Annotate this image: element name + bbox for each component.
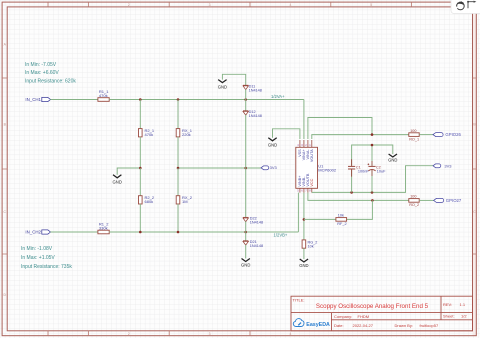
wire R2_2 bottom <box>139 204 141 232</box>
wire RX_1 bottom <box>177 137 179 168</box>
wire RX_2 bottom <box>177 204 179 232</box>
svg-text:3V3: 3V3 <box>444 163 452 168</box>
ground GND mid-left <box>113 175 121 178</box>
svg-text:4: 4 <box>289 3 291 7</box>
UI overlay top-right <box>451 0 480 14</box>
wire RX_2 top <box>177 168 179 196</box>
svg-text:MCP6002: MCP6002 <box>318 168 337 173</box>
svg-text:100: 100 <box>410 195 416 199</box>
resistor RX_2 <box>176 195 193 204</box>
op-amp U1 MCP6002 <box>296 140 337 193</box>
svg-text:5: 5 <box>370 3 372 7</box>
wire diode chain top to GND <box>222 74 245 85</box>
svg-text:3: 3 <box>209 3 211 7</box>
CH1 info text <box>25 62 76 84</box>
svg-text:3: 3 <box>209 332 211 336</box>
title block <box>291 296 473 331</box>
svg-text:680k: 680k <box>145 199 154 204</box>
svg-text:Input Resistance: 620k: Input Resistance: 620k <box>25 78 76 84</box>
svg-text:1/2VA+: 1/2VA+ <box>271 94 285 99</box>
wire VINA- feedback <box>308 118 372 140</box>
svg-text:2: 2 <box>128 332 130 336</box>
svg-text:FHDM: FHDM <box>358 314 370 319</box>
svg-text:1N4148: 1N4148 <box>250 221 263 225</box>
node B junctions <box>139 231 247 234</box>
corner arrows icon <box>468 2 474 9</box>
port IN_CH2 <box>25 230 50 235</box>
wire D11 to D12 <box>245 89 247 111</box>
flag GPIO26 <box>433 132 462 137</box>
svg-text:GND: GND <box>299 263 308 268</box>
svg-text:IN_CH1: IN_CH1 <box>25 97 41 102</box>
resistor R2_2 <box>139 195 155 204</box>
svg-text:100nF: 100nF <box>358 169 369 173</box>
svg-text:1/2VB+: 1/2VB+ <box>274 233 288 238</box>
svg-text:10k: 10k <box>308 245 314 249</box>
svg-text:In Min: -7.05V: In Min: -7.05V <box>25 62 57 68</box>
wire C2 lead <box>371 145 373 192</box>
capacitor C1 <box>348 159 369 176</box>
sheet border frame <box>473 2 477 336</box>
wire RO_2 to GPIO27 <box>419 199 433 201</box>
wire RO_1 to GPIO26 <box>419 134 433 136</box>
svg-text:10k: 10k <box>338 213 344 217</box>
diode D22 <box>243 217 263 225</box>
wire feedback RF_2 <box>304 200 373 219</box>
resistor R1_2 <box>98 222 109 234</box>
svg-text:4: 4 <box>289 332 291 336</box>
wire IN_CH2 to R1_2 <box>50 231 98 233</box>
svg-text:1N4148: 1N4148 <box>250 244 263 248</box>
svg-text:IN_CH2: IN_CH2 <box>25 230 41 235</box>
wire 3V3 rail mid <box>178 167 261 169</box>
svg-text:VCC: VCC <box>310 178 314 186</box>
svg-text:RF_2: RF_2 <box>337 222 346 226</box>
svg-text:10uF: 10uF <box>377 169 386 173</box>
svg-text:RO_1: RO_1 <box>409 137 419 141</box>
svg-text:470k: 470k <box>145 132 154 137</box>
capacitor C2 polarized <box>368 161 387 176</box>
wire R2_1 top <box>139 100 141 129</box>
wire C1 bottom lead <box>351 169 353 193</box>
svg-text:1N4148: 1N4148 <box>249 114 262 118</box>
svg-text:GND: GND <box>218 85 227 90</box>
wire RG_2 to GND <box>303 248 305 259</box>
svg-text:GND: GND <box>268 143 277 148</box>
svg-text:2: 2 <box>128 3 130 7</box>
node A junctions <box>139 98 247 101</box>
diode D21 <box>243 240 263 248</box>
wire node A rail <box>109 99 304 101</box>
ground GND below D21 <box>242 259 250 262</box>
svg-text:In Max: +6.60V: In Max: +6.60V <box>25 70 59 76</box>
wire D22 to D21 <box>245 221 247 240</box>
svg-text:VOUTA: VOUTA <box>310 149 314 162</box>
resistor RO_1 <box>409 129 419 141</box>
svg-text:Drawn By:: Drawn By: <box>395 323 413 328</box>
resistor R1_1 <box>98 89 109 101</box>
resistor RG_2 <box>302 240 317 249</box>
flag 3V3 mid <box>261 165 277 170</box>
svg-text:100: 100 <box>410 129 416 133</box>
wire IN_CH1 to R1_1 <box>50 99 98 101</box>
wire node B rail <box>109 231 298 233</box>
resistor RF_2 <box>336 213 347 226</box>
wire VCC to 3V3 rail <box>312 166 433 193</box>
resistor RX_1 <box>176 128 193 137</box>
wire VINB- down <box>303 193 305 240</box>
svg-text:GND: GND <box>113 179 122 184</box>
wire node B to VINB+ <box>297 193 299 232</box>
ground GND top <box>218 80 226 83</box>
svg-text:Sheet:: Sheet: <box>443 314 455 319</box>
wire C1 C2 top rail to GND <box>352 145 393 166</box>
ground GND at RG_2 <box>300 259 308 262</box>
svg-text:Scoppy Oscilloscope Analog Fro: Scoppy Oscilloscope Analog Front End 5 <box>316 303 429 310</box>
wire RX_1 top <box>177 100 179 129</box>
svg-text:330k: 330k <box>99 225 108 230</box>
hand pan icon <box>455 1 464 9</box>
svg-text:GND: GND <box>388 158 397 163</box>
svg-text:470k: 470k <box>99 93 108 98</box>
wire VSS to GND <box>273 129 300 139</box>
wire D21 to GND <box>245 245 247 259</box>
svg-text:GPIO27: GPIO27 <box>446 198 462 203</box>
svg-text:GPIO26: GPIO26 <box>445 132 461 137</box>
svg-text:TITLE:: TITLE: <box>293 297 305 302</box>
flag 3V3 right <box>433 163 452 168</box>
svg-text:1M: 1M <box>182 199 188 204</box>
svg-text:Company:: Company: <box>334 314 352 319</box>
svg-text:REV:: REV: <box>443 302 452 307</box>
wire R2_2 top <box>139 168 141 196</box>
svg-text:fruitloop57: fruitloop57 <box>420 323 439 328</box>
wire VOUTB to RO_2 <box>308 193 409 201</box>
CH2 info text <box>21 246 72 270</box>
wire node A to VINA+ <box>303 100 305 140</box>
svg-text:220k: 220k <box>182 132 191 137</box>
wire GND rail mid-left <box>117 168 140 175</box>
svg-text:3V3: 3V3 <box>270 165 278 170</box>
wire R2_1 bottom <box>139 137 141 168</box>
svg-text:Input Resistance: 735k: Input Resistance: 735k <box>21 264 72 270</box>
resistor RO_2 <box>409 195 419 207</box>
svg-text:GND: GND <box>241 262 250 267</box>
diode D11 <box>243 85 262 93</box>
svg-text:In Min: -1.08V: In Min: -1.08V <box>21 246 53 252</box>
svg-text:In Max: +1.05V: In Max: +1.05V <box>21 255 55 261</box>
wire D12 to 3V3 rail <box>245 115 247 218</box>
svg-text:2022-04-27: 2022-04-27 <box>353 323 374 328</box>
svg-text:EasyEDA: EasyEDA <box>306 322 330 328</box>
resistor R2_1 <box>139 128 155 137</box>
ground GND at VSS <box>268 138 276 141</box>
svg-text:1.1: 1.1 <box>460 302 466 307</box>
svg-text:RO_2: RO_2 <box>409 203 419 207</box>
svg-text:1N4148: 1N4148 <box>249 89 262 93</box>
EasyEDA logo <box>293 319 330 329</box>
flag GPIO27 <box>434 198 462 203</box>
port IN_CH1 <box>25 97 50 102</box>
wire VOUTA to RO_1 <box>312 135 409 139</box>
ground GND at caps <box>389 154 397 157</box>
diode D12 <box>243 110 262 118</box>
svg-text:1/2: 1/2 <box>461 314 467 319</box>
svg-text:Date:: Date: <box>334 323 344 328</box>
